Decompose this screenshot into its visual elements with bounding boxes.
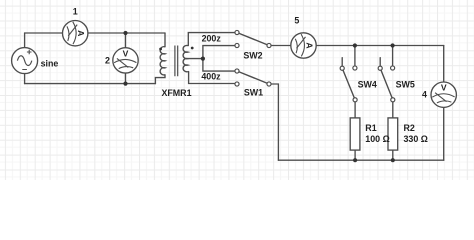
wire: voltmeter 4 bottom lead [443,107,445,160]
wire: SW5 open throw stub [379,58,381,66]
wire: 400z tap wire [189,72,235,84]
svg-text:200z: 200z [202,34,222,44]
primary winding [160,47,165,75]
ammeter 5 [291,33,316,58]
wire: 200z tap wire [188,33,235,46]
svg-text:A: A [76,30,86,36]
wire: secondary top rail [316,45,444,47]
resistor R2 [388,118,398,150]
junction dot SW5 top [391,43,395,47]
wire: SW5 output to R2 [392,102,394,118]
svg-text:5: 5 [294,16,299,26]
svg-text:V: V [441,83,447,93]
svg-text:sine: sine [41,59,59,69]
wire: center tap wire [188,58,203,60]
switch SW2 terminals [235,30,239,34]
svg-text:SW1: SW1 [244,88,263,98]
secondary winding [183,45,188,71]
resistor R1 [350,118,360,150]
wire: SW4 input stub [354,46,356,66]
svg-text:SW4: SW4 [358,80,377,90]
svg-text:R2: R2 [404,123,415,133]
switch SW1 terminals [235,69,239,73]
wire: SW4 open throw stub [341,58,343,66]
ammeter 1 [62,21,87,46]
junction dot at voltmeter 2 bottom [123,82,127,86]
transformer XFMR1 [160,45,188,76]
wire: voltmeter 2 bottom stub [125,73,127,84]
wire: R2 bottom lead [392,150,394,160]
wire: secondary bottom rail [278,159,443,161]
voltmeter 4 [431,82,456,107]
wire: center tap branch to SW2 [203,46,235,59]
switch SW4 terminals [340,66,344,70]
wire: sine top lead [24,33,26,48]
switch SW5 terminals [378,66,382,70]
svg-text:A: A [304,42,314,48]
polarity dot left [159,48,162,51]
svg-text:1: 1 [73,6,78,16]
wire: transformer primary bottom lead [155,75,165,84]
svg-text:100 Ω: 100 Ω [365,134,389,144]
polarity dot right [191,47,194,50]
wire: R1 bottom lead [354,150,356,160]
wire: transformer primary top lead [164,33,166,47]
svg-text:4: 4 [422,90,427,100]
wire: SW1 output down to bottom rail [271,84,278,160]
wire: SW5 input stub [392,46,394,66]
voltage source V1 (sine) [12,48,38,74]
wire: SW4 output to R1 [354,102,356,118]
core lines [175,46,178,77]
junction dot R2 bottom [391,158,395,162]
svg-text:R1: R1 [365,123,376,133]
wire: sine bottom lead [24,74,26,84]
svg-text:V: V [123,48,129,58]
svg-text:2: 2 [105,56,110,66]
junction dot SW4 top [353,43,357,47]
switch SW1 lever [239,72,266,83]
wire: center tap branch to SW1 [203,59,235,72]
svg-text:330 Ω: 330 Ω [404,134,428,144]
junction dot R1 bottom [353,158,357,162]
wire: primary bottom rail [25,83,156,85]
wire: voltmeter 2 top stub [125,33,127,48]
junction dot at voltmeter 2 top [123,31,127,35]
svg-text:400z: 400z [201,72,221,82]
junction dot at center tap [201,57,205,61]
svg-text:SW5: SW5 [396,80,415,90]
svg-text:XFMR1: XFMR1 [161,88,191,98]
switch SW5 lever [381,71,392,98]
switch SW2 lever [239,34,266,45]
wire: SW2 output to ammeter 5 [271,45,291,47]
wire: right rail to voltmeter 4 [443,46,445,83]
wire: primary top rail [25,32,165,34]
switch SW4 lever [343,71,354,98]
voltmeter 2 [113,48,138,73]
svg-text:SW2: SW2 [243,50,262,60]
